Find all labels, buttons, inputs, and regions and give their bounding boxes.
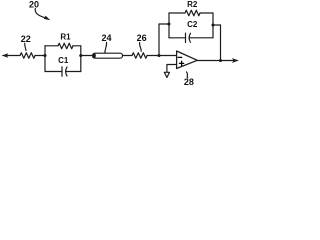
leader line 28 (squiggle) bbox=[186, 72, 187, 78]
junction dot left of R1/C1 box bbox=[43, 54, 46, 57]
svg-text:C2: C2 bbox=[187, 20, 198, 29]
resistor R1 bbox=[58, 43, 73, 49]
op-amp plus sign bbox=[180, 61, 184, 65]
wire C2 rail left bbox=[169, 37, 186, 39]
svg-text:C1: C1 bbox=[58, 56, 69, 65]
wire input to resistor 22 bbox=[8, 55, 21, 57]
input terminal arrow (left) bbox=[2, 53, 9, 58]
wire feedback right horizontal bbox=[213, 24, 221, 26]
wire C2 rail right bbox=[190, 37, 213, 39]
ground bbox=[164, 72, 169, 77]
wire bottom rail right (from C1) bbox=[66, 71, 81, 73]
svg-text:28: 28 bbox=[184, 77, 194, 86]
wire feedback tap vertical up bbox=[158, 24, 160, 56]
wire top rail left (to R1) bbox=[45, 45, 58, 47]
junction dot right side of R2/C2 box bbox=[211, 23, 214, 26]
leader line 22 bbox=[25, 43, 26, 50]
leader arrow for 20 bbox=[35, 9, 50, 21]
capacitor C2 bbox=[186, 33, 191, 42]
leader line 24 bbox=[105, 42, 107, 52]
svg-text:22: 22 bbox=[21, 34, 31, 44]
wire top rail right (from R2) bbox=[200, 12, 213, 14]
junction dot on output wire bbox=[219, 59, 222, 62]
op-amp U1 (28) bbox=[177, 51, 198, 69]
svg-text:24: 24 bbox=[101, 33, 111, 43]
wire transducer to resistor 26 bbox=[123, 55, 133, 57]
junction dot right of R1/C1 box bbox=[79, 54, 82, 57]
wire top rail left (to R2) bbox=[169, 12, 185, 14]
transducer element 24 (cylinder) bbox=[93, 53, 123, 58]
wire non-inverting input to ground bbox=[167, 65, 177, 73]
output terminal arrow (right) bbox=[232, 58, 239, 63]
junction dot feedback tap bbox=[157, 54, 160, 57]
resistor 22 bbox=[20, 53, 35, 59]
wire right vertical edge of R1/C1 box bbox=[80, 46, 82, 72]
wire op-amp output bbox=[197, 60, 233, 62]
capacitor C1 bbox=[62, 67, 67, 76]
wire right vertical edge of R2/C2 box bbox=[212, 13, 214, 38]
svg-text:26: 26 bbox=[137, 33, 147, 43]
leader line 26 bbox=[140, 43, 142, 52]
svg-text:R1: R1 bbox=[60, 32, 71, 41]
svg-text:20: 20 bbox=[29, 0, 39, 9]
wire box to transducer 24 bbox=[81, 55, 93, 57]
junction dot left side of R2/C2 box bbox=[167, 22, 170, 25]
resistor R2 bbox=[185, 10, 200, 16]
wire feedback left horizontal bbox=[159, 23, 169, 25]
wire feedback right vertical down to output bbox=[220, 25, 222, 61]
svg-text:R2: R2 bbox=[187, 0, 198, 9]
wire top rail right (from R1) bbox=[73, 45, 81, 47]
resistor 26 bbox=[132, 53, 147, 59]
wire resistor 26 to op-amp inverting input bbox=[147, 55, 177, 57]
wire resistor 22 to RC box bbox=[35, 55, 45, 57]
wire left vertical edge of R2/C2 box bbox=[168, 13, 170, 38]
wire left vertical edge of R1/C1 box bbox=[44, 46, 46, 72]
wire bottom rail left (to C1) bbox=[45, 71, 62, 73]
op-amp minus sign bbox=[178, 56, 182, 58]
